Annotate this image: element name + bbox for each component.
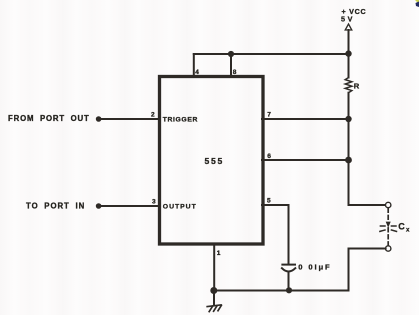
svg-text:OUTPUT: OUTPUT (163, 203, 197, 210)
svg-text:4: 4 (195, 69, 199, 76)
wire pin2 to input terminal (101, 118, 160, 120)
junction dot VCC rail (345, 50, 351, 56)
wire pin 1 down (213, 245, 215, 291)
pin 8 label (233, 69, 237, 76)
svg-text:6: 6 (267, 153, 271, 160)
node Cx bottom terminal (open circle) (386, 246, 391, 251)
node output terminal dot (96, 203, 102, 209)
label 0.01uF (298, 262, 331, 271)
junction dot pin1/ground (210, 287, 217, 294)
wire resistor to pin7 node (348, 93, 350, 119)
svg-text:3: 3 (152, 199, 156, 206)
wire pin3 to output terminal (101, 205, 160, 207)
svg-text:0 0IμF: 0 0IμF (298, 262, 331, 271)
svg-text:TRIGGER: TRIGGER (163, 116, 198, 123)
resistor R (345, 78, 352, 93)
junction dot capacitor/rail (286, 287, 292, 293)
pin 2 name TRIGGER (163, 116, 198, 123)
svg-text:TO PORT IN: TO PORT IN (26, 202, 85, 211)
svg-text:555: 555 (205, 156, 224, 166)
svg-text:8: 8 (233, 69, 237, 76)
junction dot pin 7 node (345, 116, 351, 122)
svg-text:x: x (406, 226, 410, 233)
wire pin 4 stub (193, 54, 195, 77)
capacitor Cx (external, dashed) (380, 209, 397, 246)
wire VCC lead down (348, 30, 350, 78)
wire rail pin6 down to Cx top branch (349, 160, 386, 205)
pin 7 label (267, 112, 271, 119)
wire pin 7 (262, 118, 349, 120)
wire top VCC rail (194, 53, 349, 55)
wire pin 6 (262, 159, 349, 161)
pin 4 label (195, 69, 199, 76)
scan speck top-right corner (415, 0, 419, 7)
svg-text:FROM PORT OUT: FROM PORT OUT (8, 114, 90, 123)
capacitor C1 0.01uF (282, 265, 295, 291)
power VCC terminal triangle (345, 24, 352, 30)
svg-text:7: 7 (267, 112, 271, 119)
power +VCC 5V label (341, 7, 366, 23)
wire Cx bottom to ground rail (349, 249, 386, 291)
pin 6 label (267, 153, 271, 160)
ground (207, 291, 221, 312)
label Cx (398, 222, 410, 234)
svg-text:5: 5 (267, 197, 271, 204)
pin 1 label (217, 250, 221, 257)
node Cx top terminal (open circle) (386, 202, 391, 207)
label 555 (205, 156, 224, 166)
svg-text:C: C (398, 222, 405, 232)
wire bottom ground rail (214, 290, 348, 292)
wire pin 5 to capacitor (262, 205, 289, 263)
pin 5 label (267, 197, 271, 204)
node input terminal dot (96, 116, 102, 122)
label TO PORT IN (26, 202, 85, 211)
wire rail pin7 to pin6 (348, 119, 350, 160)
svg-text:R: R (354, 82, 360, 91)
op-amp/timer IC U1 555 body (160, 77, 264, 245)
label R (354, 82, 360, 91)
svg-text:2: 2 (151, 112, 155, 119)
label FROM PORT OUT (8, 114, 90, 123)
pin 2 label (151, 112, 155, 119)
pin 3 label (152, 199, 156, 206)
svg-text:1: 1 (217, 250, 221, 257)
wire pin 8 stub (230, 54, 232, 77)
junction dot at pin 8 rail (228, 51, 234, 57)
junction dot pin 6 node (345, 157, 352, 164)
pin 3 name OUTPUT (163, 203, 197, 210)
svg-text:5 V: 5 V (341, 14, 353, 23)
